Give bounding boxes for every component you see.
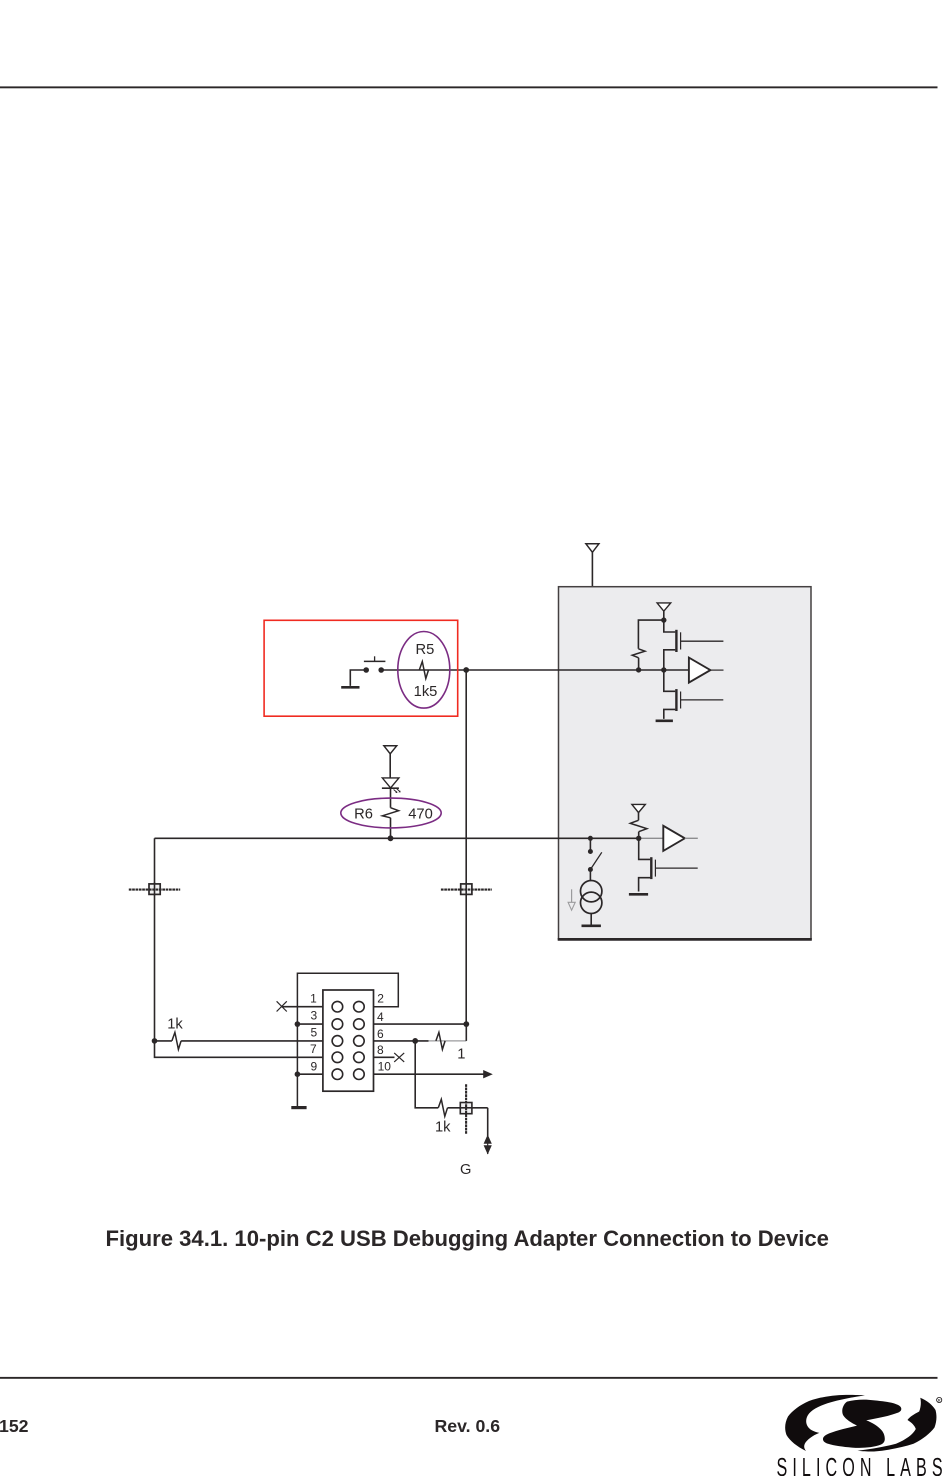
svg-text:R6: R6 [354, 807, 373, 823]
wire resistor to node [638, 658, 640, 670]
reset circuit outline box [264, 620, 458, 716]
pin labels even [377, 992, 391, 1074]
op-amp buffer U1a [689, 658, 724, 683]
resistor pull-up (top cell) [632, 649, 645, 658]
wire pin4 [374, 1023, 467, 1025]
svg-text:10: 10 [378, 1060, 392, 1074]
wire pin5 [181, 1040, 323, 1042]
connector J1 body [323, 990, 374, 1091]
wire C2D vertical [465, 670, 467, 1024]
wire to pull-up resistor [638, 620, 663, 649]
wire pin6 to 1k resistor [415, 1041, 438, 1108]
node R6 junction [388, 835, 394, 841]
wire C2CK left vertical [155, 838, 323, 1057]
wire C2CK net [155, 837, 640, 839]
ground (connector) [291, 1106, 306, 1109]
wire to resistor 1k [155, 1040, 172, 1042]
resistor R6 [382, 808, 398, 818]
node pin9 junction [295, 1071, 301, 1077]
jumper symbol (C2D) [441, 883, 492, 896]
label 1k5 [414, 684, 438, 700]
resistor 1 (pin6) [436, 1032, 445, 1049]
current source I1 [581, 881, 602, 914]
wire pin1 no-connect [277, 1001, 323, 1011]
switch (bottom cell) [588, 838, 602, 872]
svg-text:7: 7 [310, 1042, 317, 1056]
node pull-up junction (bottom cell) [636, 836, 641, 841]
label 1k (left) [167, 1016, 183, 1032]
node pin6 junction [412, 1038, 418, 1044]
logo swoosh left crescent [785, 1395, 865, 1451]
wire switch to current source [589, 870, 591, 881]
resistor 1k (bottom) [438, 1099, 447, 1116]
LED D1 [382, 778, 401, 793]
pin labels odd [310, 992, 318, 1074]
wire through jumper [448, 1107, 488, 1109]
Silicon Labs logo [785, 1395, 936, 1452]
VDD symbol (above LED) [384, 746, 397, 754]
ground (current source) [582, 924, 601, 927]
connector pins row 3 [332, 1036, 364, 1047]
connector pins row 5 [332, 1069, 364, 1080]
label R5 [416, 642, 435, 658]
logo registered trademark [937, 1397, 942, 1403]
svg-text:1k5: 1k5 [414, 684, 438, 700]
node G double arrow [484, 1135, 492, 1155]
logo wordmark SILICON LABS [777, 1452, 943, 1476]
wire C2D net [381, 669, 689, 671]
svg-text:9: 9 [310, 1060, 317, 1074]
jumper symbol (C2CK) [129, 883, 180, 896]
ground (push button) [341, 670, 366, 687]
node pull-up junction [636, 667, 641, 672]
bottom rule [0, 1377, 938, 1379]
label 470 [408, 807, 433, 823]
wire to buffer (gray) [639, 837, 664, 839]
label 1k (bottom) [435, 1119, 451, 1135]
svg-text:1: 1 [457, 1046, 465, 1062]
wire pin10 with arrow [374, 1070, 493, 1078]
label R6 [354, 807, 373, 823]
resistor R5 [419, 662, 428, 679]
ground (bottom cell) [629, 893, 648, 896]
push button SW [363, 656, 385, 673]
svg-text:470: 470 [408, 807, 433, 823]
wire pin6 [374, 1024, 467, 1041]
VDD symbol (top cell) [657, 603, 671, 611]
label 1 [457, 1046, 465, 1062]
figure caption [106, 1226, 829, 1252]
transistor Q1 (PMOS, top cell) [664, 620, 724, 670]
wire pin9 [297, 1073, 323, 1075]
page number [0, 1416, 29, 1437]
svg-text:G: G [460, 1162, 471, 1178]
R6 highlight ellipse [341, 798, 441, 828]
R5 highlight ellipse [398, 632, 450, 709]
resistor pull-up (bottom cell) [630, 813, 647, 839]
wire pin3 [297, 1023, 323, 1025]
wire LED to R6 [390, 788, 392, 808]
revision [435, 1416, 501, 1437]
jumper symbol (G) [459, 1084, 473, 1134]
wire to G arrow [487, 1108, 489, 1136]
svg-text:1: 1 [310, 992, 317, 1006]
node switch junction [588, 836, 593, 841]
wire R6 to node [390, 818, 392, 839]
connector pins row 4 [332, 1052, 364, 1063]
logo swoosh center S [823, 1400, 901, 1448]
connector pins row 1 [332, 1001, 364, 1012]
op-amp buffer U1b [663, 826, 698, 851]
device box [558, 587, 812, 940]
wire ground loop (pins 2,3,9) [297, 973, 398, 1106]
svg-text:R5: R5 [416, 642, 435, 658]
svg-text:1k: 1k [167, 1016, 183, 1032]
svg-text:8: 8 [377, 1043, 384, 1057]
resistor 1k (left) [172, 1032, 181, 1049]
svg-text:R: R [938, 1398, 941, 1403]
wire VDD to LED [389, 754, 391, 778]
svg-text:1k: 1k [435, 1119, 451, 1135]
svg-text:2: 2 [377, 992, 384, 1006]
VDD symbol (top, above device box) [586, 544, 599, 553]
node 1k junction [152, 1038, 158, 1044]
node VDD2 junction [661, 617, 666, 622]
logo swoosh right crescent [858, 1398, 937, 1452]
svg-text:4: 4 [377, 1010, 384, 1024]
top rule [0, 86, 938, 88]
VDD symbol (bottom cell) [632, 804, 645, 812]
connector pins row 2 [332, 1019, 364, 1030]
svg-text:3: 3 [310, 1009, 317, 1023]
wire VDD to device box [591, 552, 593, 586]
transistor Q2 (NMOS, top cell) [664, 670, 724, 719]
svg-text:6: 6 [377, 1027, 384, 1041]
node pin4 junction [463, 1021, 469, 1027]
wire current source to ground [590, 914, 592, 926]
svg-text:SILICON LABS: SILICON LABS [777, 1452, 943, 1476]
current direction arrow [568, 889, 575, 910]
svg-text:5: 5 [310, 1026, 317, 1040]
wire VDD2 to node [663, 611, 665, 620]
node pin3 junction [295, 1021, 301, 1027]
node buffer input junction [661, 667, 666, 672]
ground (top cell) [656, 719, 673, 722]
transistor Q3 (NMOS, bottom cell) [639, 838, 698, 891]
node C2D junction [463, 667, 469, 673]
label G [460, 1162, 471, 1178]
wire pin8 no-connect [374, 1053, 405, 1062]
